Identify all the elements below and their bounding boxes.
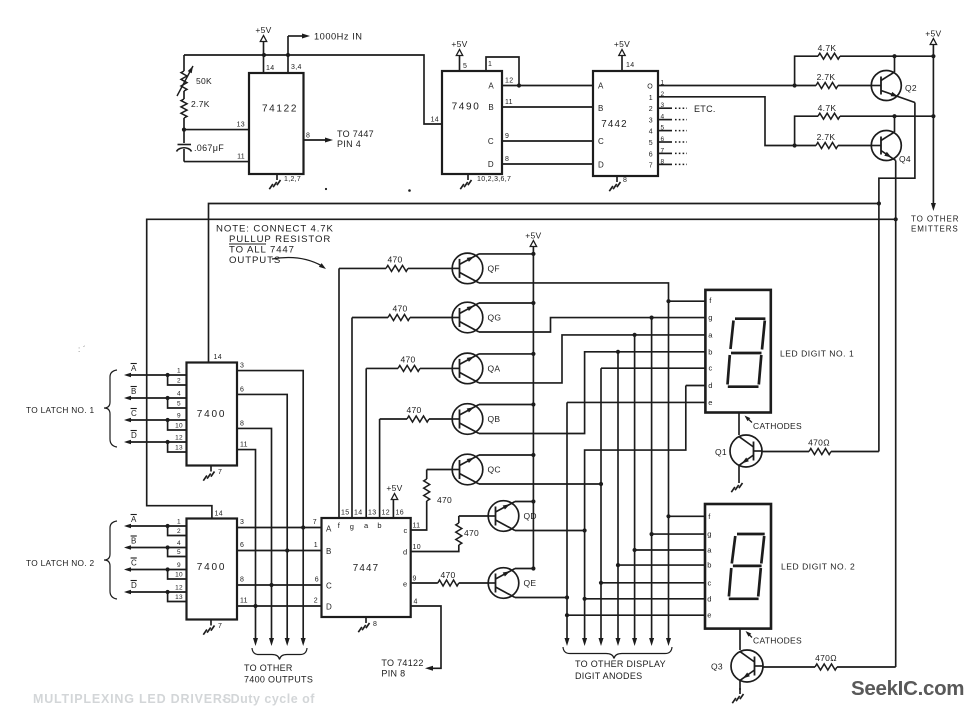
wire 7447 output to QB base bbox=[379, 419, 381, 518]
svg-text:a: a bbox=[708, 330, 713, 339]
svg-text:4: 4 bbox=[414, 599, 418, 606]
junction bus1/Q1 resistor bbox=[877, 201, 881, 205]
svg-text:2.7K: 2.7K bbox=[817, 132, 836, 142]
svg-text:B: B bbox=[598, 104, 604, 113]
svg-text:QG: QG bbox=[488, 313, 502, 323]
svg-text:7: 7 bbox=[649, 162, 653, 169]
svg-text:CATHODES: CATHODES bbox=[753, 421, 802, 431]
svg-text:470: 470 bbox=[400, 354, 415, 364]
brace latch 2 bbox=[104, 521, 117, 599]
svg-text:+5V: +5V bbox=[451, 39, 467, 49]
wire 74122 pin 13 bbox=[184, 129, 249, 131]
svg-text:PIN 8: PIN 8 bbox=[381, 669, 405, 679]
svg-text:- Duty cycle of: - Duty cycle of bbox=[222, 692, 315, 706]
svg-text:a: a bbox=[364, 521, 369, 530]
svg-text:5: 5 bbox=[463, 63, 467, 70]
wire e matrix vertical bbox=[566, 402, 568, 640]
input D-bar (latch 2) bbox=[130, 591, 187, 593]
svg-text:e: e bbox=[708, 398, 712, 407]
svg-text:2.7K: 2.7K bbox=[191, 99, 210, 109]
stray mark bbox=[408, 189, 411, 192]
svg-text:B: B bbox=[326, 547, 332, 556]
wire f matrix vertical bbox=[668, 301, 670, 640]
resistor 470 (QC base) bbox=[424, 479, 430, 501]
wire 7447 c to QC base resistor bbox=[411, 501, 427, 530]
svg-text:6: 6 bbox=[315, 577, 319, 584]
junction 4.7K/2.7K no.2 bbox=[793, 143, 797, 147]
svg-text:QE: QE bbox=[524, 578, 537, 588]
svg-text:D: D bbox=[598, 161, 604, 170]
IC U2 7490 bbox=[442, 71, 502, 174]
junction QD emitter bbox=[531, 499, 535, 503]
svg-text:b: b bbox=[377, 521, 381, 530]
junction out3/A bbox=[301, 525, 305, 529]
svg-text:Q4: Q4 bbox=[899, 154, 911, 164]
wire b to LED digit 2 bbox=[618, 564, 705, 566]
svg-text:470: 470 bbox=[392, 304, 407, 314]
wire QB emitter to +5V rail bbox=[479, 404, 533, 406]
svg-text:QF: QF bbox=[488, 263, 500, 273]
svg-text:TO LATCH NO. 1: TO LATCH NO. 1 bbox=[26, 405, 95, 415]
svg-text:Q2: Q2 bbox=[905, 83, 917, 93]
svg-text:D: D bbox=[131, 581, 137, 590]
junction a digit 1 bbox=[633, 333, 637, 337]
svg-text:9: 9 bbox=[413, 576, 417, 583]
svg-text:C: C bbox=[598, 137, 604, 146]
junction 4.7K/2.7K no.1 bbox=[793, 83, 797, 87]
IC U1 74122 bbox=[249, 73, 304, 174]
svg-text:4: 4 bbox=[177, 540, 181, 547]
svg-text:2.7K: 2.7K bbox=[817, 72, 836, 82]
wire Q1 emitter to ground bbox=[738, 466, 740, 478]
svg-text:3: 3 bbox=[240, 363, 244, 370]
wire Q3 emitter to ground bbox=[739, 681, 741, 691]
junction QC collector/c bbox=[599, 482, 603, 486]
resistor 4.7K no.1 bbox=[795, 56, 818, 85]
brace 7400 outputs bbox=[252, 648, 307, 660]
svg-text:2: 2 bbox=[649, 106, 653, 113]
svg-text:TO 74122: TO 74122 bbox=[381, 658, 423, 668]
svg-text:5: 5 bbox=[649, 140, 653, 147]
junction f digit 2 bbox=[666, 514, 670, 518]
transistor QC bbox=[452, 454, 483, 485]
svg-text:10: 10 bbox=[175, 572, 183, 579]
svg-text:12: 12 bbox=[382, 510, 390, 517]
svg-text:9: 9 bbox=[177, 413, 181, 420]
svg-text:CATHODES: CATHODES bbox=[753, 636, 802, 646]
brace display anodes bbox=[563, 647, 672, 659]
wire a matrix vertical bbox=[634, 335, 636, 640]
junction pin13/left rail bbox=[182, 128, 186, 132]
wire f to LED digit 2 bbox=[669, 515, 705, 517]
svg-text:2: 2 bbox=[177, 378, 181, 385]
svg-text:.067μF: .067μF bbox=[194, 143, 224, 153]
wire 7490 C to 7442 C bbox=[502, 140, 593, 142]
svg-text:7400: 7400 bbox=[197, 562, 226, 573]
svg-text:10: 10 bbox=[413, 544, 421, 551]
svg-text:B: B bbox=[131, 387, 137, 396]
junction c digit 2 bbox=[599, 581, 603, 585]
wire c to LED digit 2 bbox=[601, 582, 705, 584]
svg-text:A: A bbox=[598, 82, 604, 91]
resistor 2.7K no.2 (Q4 base) bbox=[816, 143, 838, 149]
wire 7400 no.2 out6 to 7447 B bbox=[237, 550, 322, 552]
svg-text:+5V: +5V bbox=[525, 231, 541, 241]
input A-bar (latch 2) bbox=[130, 525, 187, 527]
svg-text:g: g bbox=[350, 522, 354, 531]
wire resistor to QC base bbox=[427, 469, 453, 471]
LED display digit no.1 bbox=[705, 290, 770, 413]
svg-text:1: 1 bbox=[314, 542, 318, 549]
label CATHODES (digit 2) bbox=[747, 633, 752, 638]
svg-text:MULTIPLEXING LED DRIVERS: MULTIPLEXING LED DRIVERS bbox=[33, 692, 232, 706]
transistor QF bbox=[452, 253, 483, 284]
svg-text:OUTPUTS: OUTPUTS bbox=[229, 255, 281, 266]
svg-text:9: 9 bbox=[177, 562, 181, 569]
svg-text:C: C bbox=[131, 409, 137, 418]
svg-text:15: 15 bbox=[341, 510, 349, 517]
svg-text:6: 6 bbox=[240, 542, 244, 549]
svg-text:7447: 7447 bbox=[353, 563, 380, 574]
svg-text:1: 1 bbox=[177, 519, 181, 526]
svg-text:+5V: +5V bbox=[925, 29, 941, 39]
svg-text:d: d bbox=[403, 548, 407, 557]
svg-text:470: 470 bbox=[437, 495, 452, 505]
junction QD collector/d bbox=[583, 528, 587, 532]
LED display digit no.2 bbox=[705, 504, 771, 629]
svg-text:A: A bbox=[488, 82, 494, 91]
IC U3 7442 bbox=[593, 71, 658, 176]
wire d to LED digit 1 bbox=[686, 385, 706, 387]
svg-text:3: 3 bbox=[240, 519, 244, 526]
wire QB collector to segment b bbox=[479, 352, 618, 434]
svg-text:e: e bbox=[403, 580, 407, 589]
svg-text:50K: 50K bbox=[196, 76, 212, 86]
IC U5 7400 no.2 bbox=[187, 519, 238, 620]
svg-text:470: 470 bbox=[406, 405, 421, 415]
svg-text:7: 7 bbox=[218, 469, 222, 476]
junction out11/D bbox=[253, 604, 257, 608]
wire 7447 output to QF base bbox=[338, 268, 340, 518]
wire QD emitter to +5V rail bbox=[515, 501, 533, 503]
svg-text:5: 5 bbox=[177, 401, 181, 408]
junction b digit 1 bbox=[616, 350, 620, 354]
svg-text:11: 11 bbox=[240, 442, 248, 449]
svg-text:14: 14 bbox=[626, 62, 634, 69]
svg-text:TO LATCH NO. 2: TO LATCH NO. 2 bbox=[26, 558, 95, 568]
junction +5V/74122 bbox=[262, 53, 266, 57]
wire QG emitter to +5V rail bbox=[479, 302, 533, 304]
wire 7442 unused output stub bbox=[658, 163, 672, 165]
svg-text:14: 14 bbox=[431, 117, 439, 124]
svg-text:7: 7 bbox=[218, 623, 222, 630]
wire bus no.1 (Q2 emitter to 7400 no.1 pin 14) bbox=[209, 204, 879, 363]
svg-text:b: b bbox=[708, 347, 712, 356]
input B-bar (latch 2) bbox=[130, 547, 187, 549]
svg-text:LED DIGIT NO. 2: LED DIGIT NO. 2 bbox=[781, 562, 855, 572]
svg-text:9: 9 bbox=[505, 133, 509, 140]
junction QE emitter bbox=[531, 566, 535, 570]
wire g to LED digit 1 bbox=[652, 317, 706, 319]
svg-text:c: c bbox=[707, 578, 711, 587]
wire 7400 no.1 out6 to 7447 B bbox=[237, 394, 287, 640]
svg-text:470Ω: 470Ω bbox=[808, 438, 830, 448]
junction b digit 2 bbox=[616, 563, 620, 567]
wire f to LED digit 1 bbox=[669, 300, 707, 302]
potentiometer 50K bbox=[183, 55, 185, 71]
junction e digit 2 bbox=[565, 613, 569, 617]
transistor QE bbox=[488, 568, 519, 599]
wire 7442 unused output stub bbox=[658, 107, 672, 109]
junction pin3,4 line bbox=[286, 53, 290, 57]
input D-bar (latch 1) bbox=[130, 441, 187, 443]
svg-text:13: 13 bbox=[368, 510, 376, 517]
svg-text:b: b bbox=[707, 561, 711, 570]
transistor QD bbox=[488, 501, 519, 532]
ground Q1 bbox=[738, 477, 740, 483]
wire 7400 no.2 out8 to 7447 C bbox=[237, 584, 322, 586]
junction +5V rail mid bbox=[931, 114, 935, 118]
svg-text:4.7K: 4.7K bbox=[818, 43, 837, 53]
wire QG collector to segment g bbox=[479, 318, 652, 332]
svg-text:NOTE: CONNECT 4.7K: NOTE: CONNECT 4.7K bbox=[216, 224, 334, 235]
resistor 470 ohm (Q1 base) bbox=[762, 451, 809, 453]
resistor 470 ohm (Q3 base) bbox=[763, 666, 815, 668]
svg-text:PULLUP RESISTOR: PULLUP RESISTOR bbox=[229, 234, 331, 245]
svg-text:8: 8 bbox=[623, 177, 627, 184]
svg-text:470Ω: 470Ω bbox=[815, 653, 837, 663]
svg-text:74122: 74122 bbox=[262, 104, 298, 115]
wire 7447 output to QA base bbox=[365, 368, 367, 518]
svg-text:7: 7 bbox=[313, 519, 317, 526]
svg-text:e: e bbox=[707, 611, 711, 620]
svg-text:14: 14 bbox=[354, 510, 362, 517]
wire Q4 emitter down to Q3 resistor bbox=[895, 161, 897, 668]
capacitor .067uF bbox=[178, 144, 192, 146]
wire QE collector to e vertical bbox=[515, 597, 567, 599]
svg-text:g: g bbox=[708, 313, 712, 322]
svg-text:3: 3 bbox=[649, 118, 653, 125]
svg-text:B: B bbox=[131, 537, 137, 546]
wire digit 2 cathode bbox=[739, 629, 741, 651]
junction d digit 2 bbox=[583, 597, 587, 601]
wire 7447 output to QG base bbox=[351, 318, 353, 519]
svg-text:4: 4 bbox=[649, 129, 653, 136]
ground Q3 bbox=[739, 688, 741, 694]
svg-text:C: C bbox=[326, 582, 332, 591]
wire 74122 pin 8 to 7447 pin 4 bbox=[304, 139, 329, 141]
svg-text:1,2,7: 1,2,7 bbox=[284, 176, 301, 183]
svg-text:8: 8 bbox=[240, 577, 244, 584]
svg-text:TO OTHER: TO OTHER bbox=[911, 215, 959, 224]
ground 7490 pins 10,2,3,6,7 bbox=[467, 174, 469, 180]
svg-text:O: O bbox=[647, 84, 653, 91]
wire 7490 A to 7442 A bbox=[502, 85, 593, 87]
wire b matrix vertical bbox=[617, 352, 619, 640]
svg-text:8: 8 bbox=[505, 156, 509, 163]
transistor Q1 bbox=[730, 435, 762, 467]
resistor 4.7K no.2 bbox=[795, 116, 818, 145]
svg-text:8: 8 bbox=[306, 133, 310, 140]
seven segment 0 (digit 1) bbox=[735, 317, 765, 320]
junction 7490 A/pin1 bbox=[517, 83, 521, 87]
svg-text:1: 1 bbox=[649, 95, 653, 102]
ground 7400 no.1 pin 7 bbox=[210, 466, 212, 472]
junction QE collector/e bbox=[565, 595, 569, 599]
wire e to LED digit 1 bbox=[567, 401, 706, 403]
wire 7442 unused output stub bbox=[658, 119, 672, 121]
junction Q4 emitter / bus no.2 bbox=[894, 217, 898, 221]
wire d to LED digit 2 bbox=[585, 598, 705, 600]
wire resistor to QD base bbox=[459, 515, 488, 517]
svg-text:6: 6 bbox=[240, 387, 244, 394]
IC U4 7400 no.1 bbox=[187, 363, 238, 466]
wire QF emitter to +5V rail bbox=[479, 253, 533, 255]
svg-text:D: D bbox=[131, 431, 137, 440]
transistor QA bbox=[452, 353, 483, 384]
wire 7442 output 1 to 2.7K bbox=[658, 97, 816, 146]
svg-text:+5V: +5V bbox=[614, 39, 630, 49]
transistor QG bbox=[452, 302, 483, 333]
wire 7442 output 0 to 2.7K bbox=[658, 85, 816, 87]
input C-bar (latch 1) bbox=[130, 419, 187, 421]
wire 7400 no.2 out3 to 7447 A bbox=[237, 527, 322, 529]
wire g matrix vertical bbox=[651, 318, 653, 640]
junction +5V rail top bbox=[931, 54, 935, 58]
wire Q1 base resistor to bus no.1 bbox=[878, 204, 880, 452]
junction QA emitter bbox=[531, 352, 535, 356]
IC U6 7447 bbox=[322, 518, 411, 617]
svg-text:DIGIT ANODES: DIGIT ANODES bbox=[575, 671, 642, 681]
wire digit 1 cathode bbox=[738, 413, 740, 435]
svg-text:2: 2 bbox=[177, 528, 181, 535]
svg-text:SeekIC.com: SeekIC.com bbox=[851, 677, 964, 700]
wire c to LED digit 1 bbox=[601, 367, 706, 369]
wire QC emitter to +5V rail bbox=[479, 454, 533, 456]
svg-text:EMITTERS: EMITTERS bbox=[911, 225, 959, 234]
svg-text:D: D bbox=[326, 603, 332, 612]
svg-text:PIN 4: PIN 4 bbox=[337, 139, 361, 149]
junction g digit 1 bbox=[650, 316, 654, 320]
wire 74122 pin 11 bbox=[184, 161, 249, 163]
wire QD collector to d vertical bbox=[515, 530, 585, 532]
svg-text:11: 11 bbox=[505, 99, 513, 106]
transistor QB bbox=[452, 404, 483, 435]
input A-bar (latch 1) bbox=[130, 374, 187, 376]
wire 7442 unused output stub bbox=[658, 141, 672, 143]
resistor 470 (QD base) bbox=[456, 523, 462, 545]
svg-text:B: B bbox=[488, 103, 494, 112]
svg-text:6: 6 bbox=[649, 151, 653, 158]
transistor Q3 bbox=[731, 650, 763, 682]
svg-text:11: 11 bbox=[240, 598, 248, 605]
svg-text:1: 1 bbox=[488, 61, 492, 68]
wire e to LED digit 2 bbox=[567, 614, 705, 616]
wire a to LED digit 1 bbox=[635, 334, 706, 336]
ground 74122 pins 1,2,7 bbox=[276, 174, 278, 180]
resistor 470 (QB base) bbox=[407, 416, 429, 422]
svg-text:2: 2 bbox=[314, 598, 318, 605]
svg-text:d: d bbox=[708, 381, 712, 390]
svg-text:c: c bbox=[708, 364, 712, 373]
svg-text:TO ALL 7447: TO ALL 7447 bbox=[229, 245, 295, 256]
wire 7490 pin 1 feedback bbox=[486, 57, 519, 86]
svg-text:TO OTHER DISPLAY: TO OTHER DISPLAY bbox=[575, 659, 666, 669]
junction out6/B bbox=[285, 548, 289, 552]
ground 7447 pin 8 bbox=[365, 617, 367, 623]
svg-text:QD: QD bbox=[524, 511, 537, 521]
svg-text:QC: QC bbox=[488, 465, 501, 475]
input C-bar (latch 2) bbox=[130, 569, 187, 571]
svg-text:TO 7447: TO 7447 bbox=[337, 129, 374, 139]
wire 74122 pins 3,4 bbox=[287, 36, 289, 73]
resistor 470 (QF base) bbox=[386, 265, 408, 271]
wire 7400 no.1 out11 to 7447 D bbox=[237, 450, 256, 640]
svg-text:LED DIGIT NO. 1: LED DIGIT NO. 1 bbox=[780, 349, 854, 359]
seven segment 0 (digit 2) bbox=[737, 533, 765, 536]
wire QF collector to segment f bbox=[479, 283, 669, 301]
svg-text:8: 8 bbox=[373, 621, 377, 628]
wire QA emitter to +5V rail bbox=[479, 353, 533, 355]
svg-text:3,4: 3,4 bbox=[291, 64, 302, 71]
wire b to LED digit 1 bbox=[618, 351, 706, 353]
wire QA collector to segment a bbox=[479, 335, 635, 383]
svg-text:14: 14 bbox=[266, 65, 274, 72]
wire 7490 B to 7442 B bbox=[502, 106, 593, 108]
transistor Q4 bbox=[871, 131, 901, 161]
svg-text:1000Hz IN: 1000Hz IN bbox=[314, 32, 362, 42]
svg-text:7442: 7442 bbox=[601, 119, 628, 130]
svg-text:: ´: : ´ bbox=[78, 345, 86, 354]
svg-text:14: 14 bbox=[215, 511, 223, 518]
svg-text:12: 12 bbox=[175, 435, 183, 442]
wire d matrix vertical with jog bbox=[585, 386, 686, 641]
svg-text:QB: QB bbox=[488, 414, 501, 424]
svg-text:5: 5 bbox=[177, 549, 181, 556]
resistor 2.7K no.1 (Q2 base) bbox=[816, 83, 838, 89]
svg-text:4: 4 bbox=[177, 391, 181, 398]
svg-text:13: 13 bbox=[237, 122, 245, 129]
junction QC emitter bbox=[531, 453, 535, 457]
svg-text:C: C bbox=[131, 559, 137, 568]
svg-text:a: a bbox=[707, 546, 712, 555]
wire 7400 no.2 out11 to 7447 D bbox=[237, 605, 322, 607]
wire c matrix vertical bbox=[600, 368, 602, 640]
svg-text:12: 12 bbox=[175, 585, 183, 592]
svg-text:Q1: Q1 bbox=[715, 447, 727, 457]
svg-text:13: 13 bbox=[175, 445, 183, 452]
svg-text:14: 14 bbox=[214, 354, 222, 361]
svg-text:A: A bbox=[131, 364, 137, 373]
resistor 470 (QE base) bbox=[438, 580, 459, 586]
wire 7490 D to 7442 D bbox=[502, 163, 593, 165]
svg-text:d: d bbox=[707, 594, 711, 603]
svg-text:7400 OUTPUTS: 7400 OUTPUTS bbox=[244, 675, 313, 685]
svg-text:8: 8 bbox=[240, 421, 244, 428]
wire 7400 no.1 out3 to 7447 A bbox=[237, 371, 303, 640]
wire +5V rail to 7490 pin 14 bbox=[184, 55, 442, 124]
svg-text:13: 13 bbox=[175, 594, 183, 601]
wire QC collector to c vertical bbox=[479, 483, 601, 485]
svg-text:470: 470 bbox=[387, 254, 402, 264]
brace latch 1 bbox=[104, 370, 117, 447]
svg-text:QA: QA bbox=[488, 363, 501, 373]
label CATHODES (digit 1) bbox=[746, 417, 752, 423]
svg-text:11: 11 bbox=[413, 523, 421, 530]
svg-text:470: 470 bbox=[440, 570, 455, 580]
ground 7400 no.2 pin 7 bbox=[210, 620, 212, 626]
junction a digit 2 bbox=[633, 548, 637, 552]
